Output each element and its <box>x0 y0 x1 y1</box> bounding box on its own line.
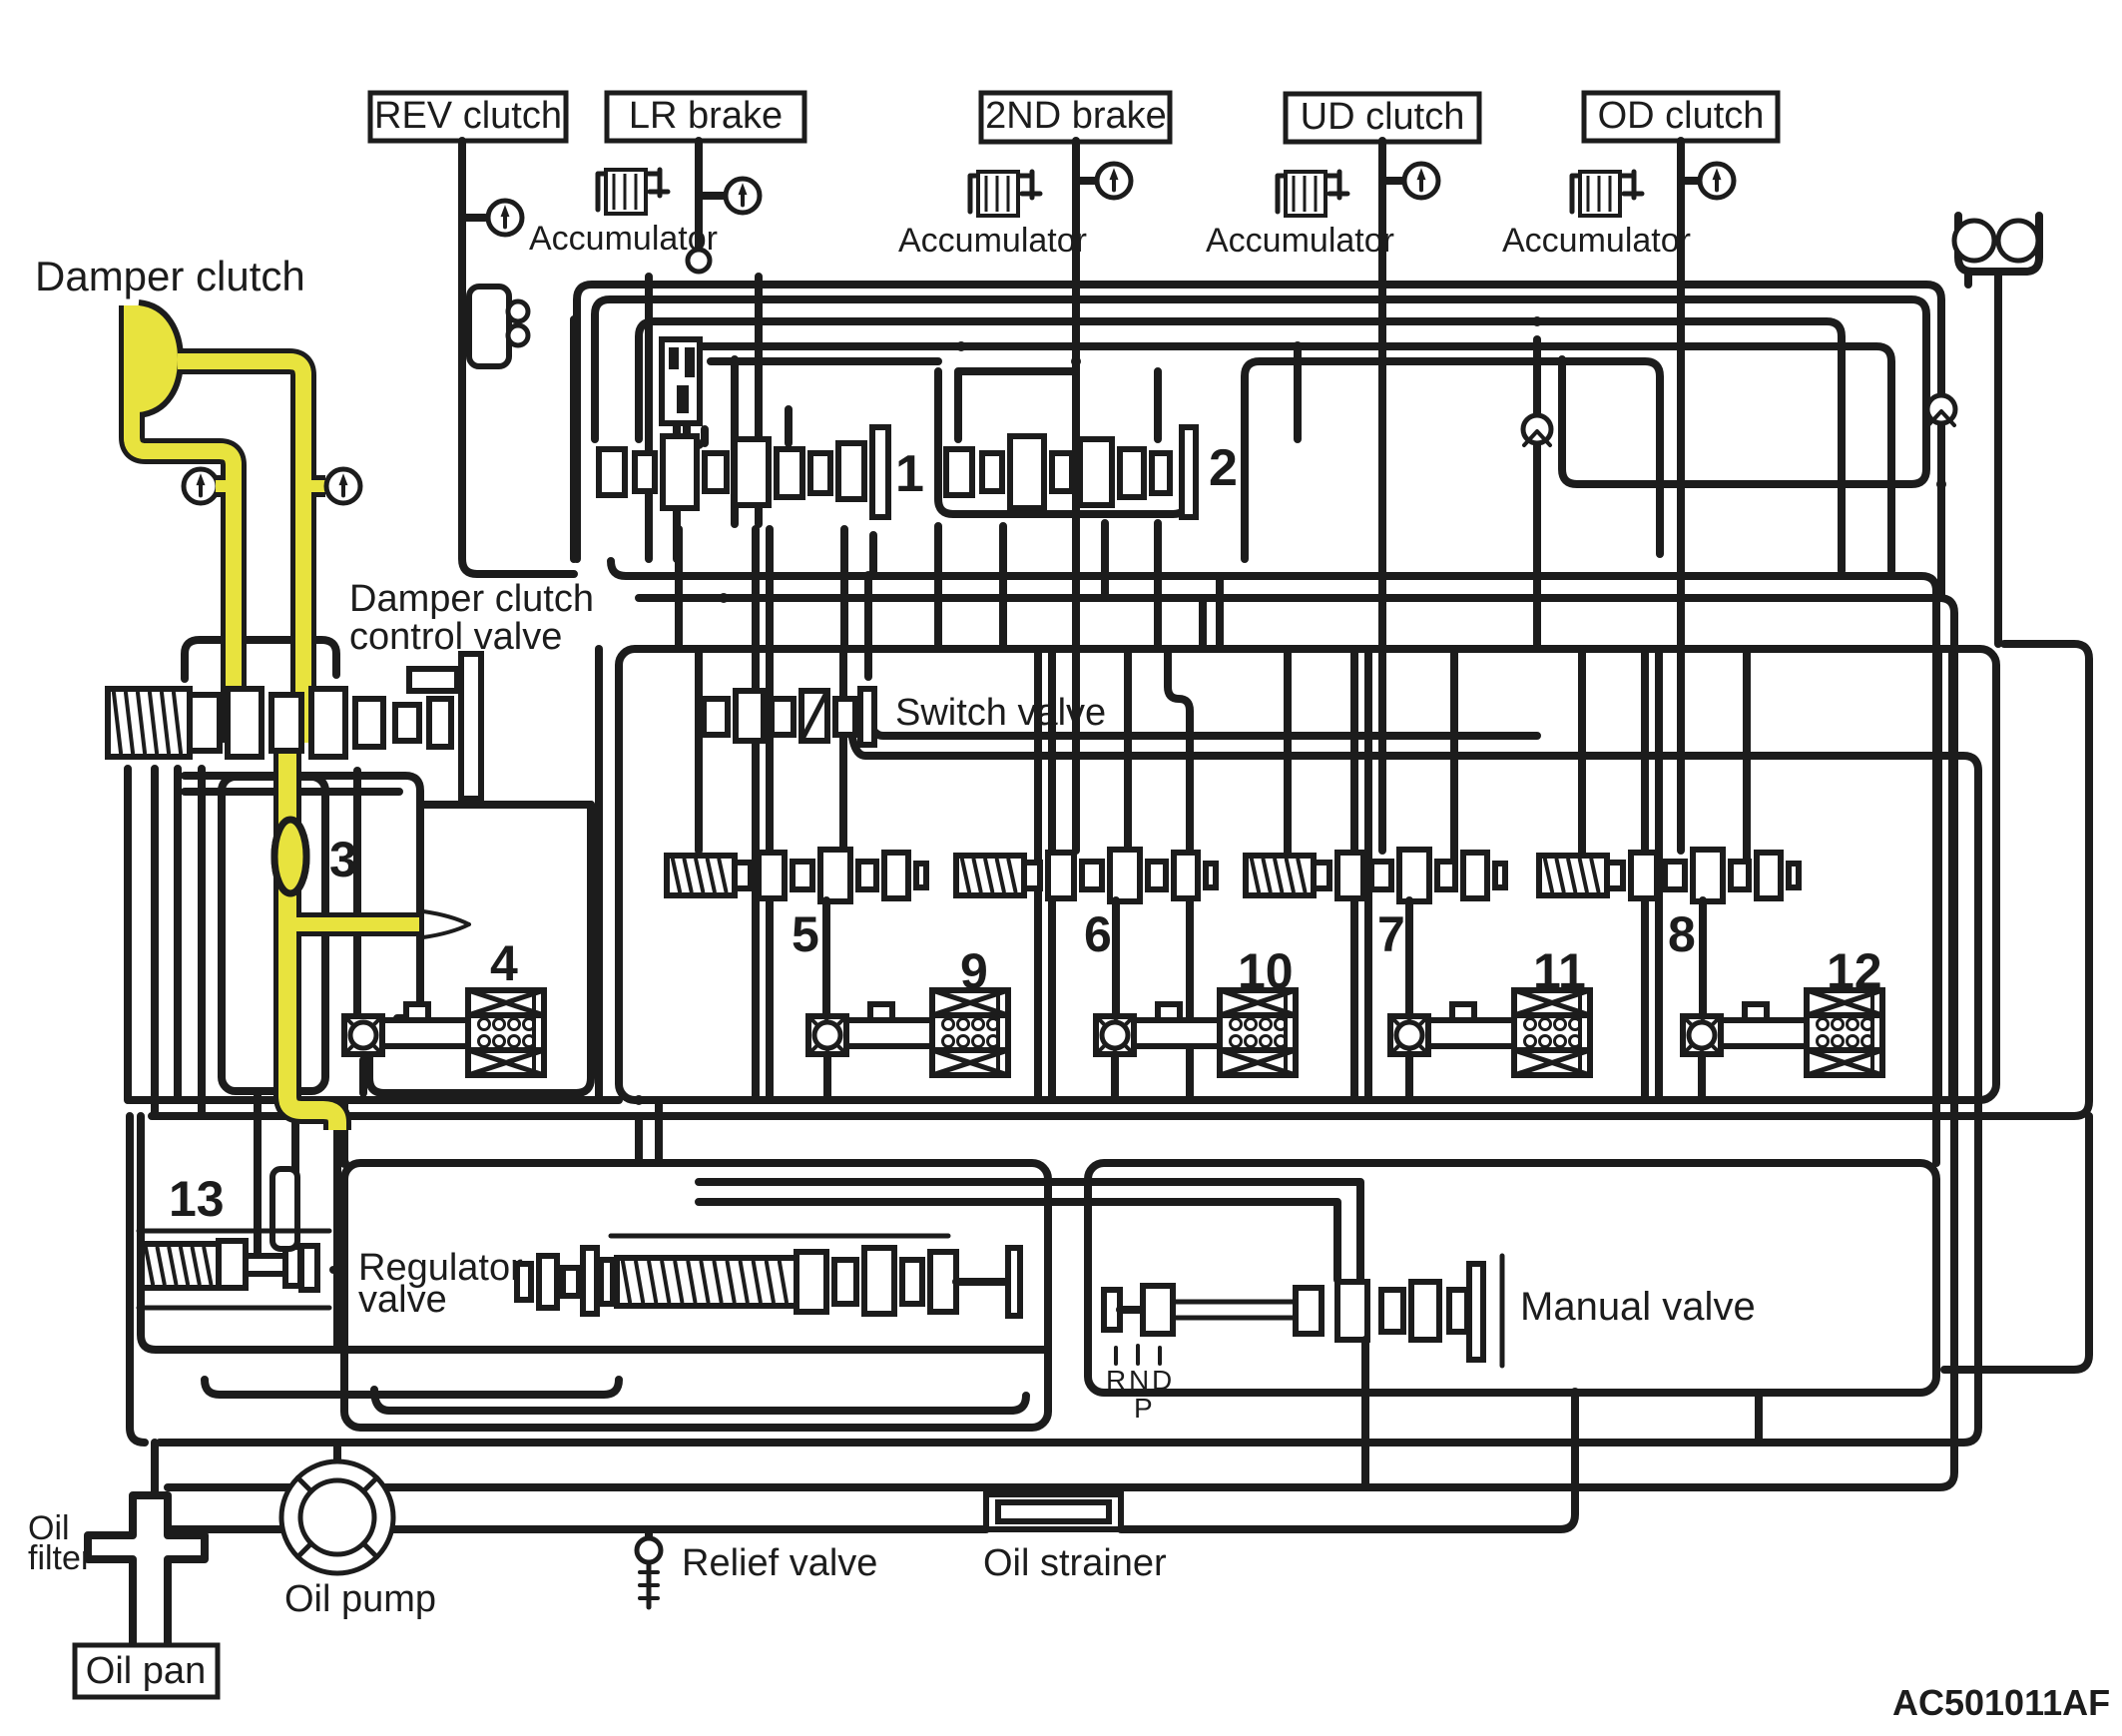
compartment wall pair 4 <box>1645 649 1659 1100</box>
svg-text:13: 13 <box>169 1171 225 1227</box>
wire top bus 1 <box>577 285 1941 598</box>
wire valve1 left verticals <box>574 277 759 559</box>
valve 13 assembly <box>140 1244 220 1288</box>
valve 1 spool assembly <box>599 449 625 495</box>
label box REV clutch <box>370 93 566 141</box>
junction dots <box>863 571 873 581</box>
component with ports near valve 1 <box>662 339 700 423</box>
node 3 oval <box>274 820 306 893</box>
solenoid valve 12 <box>1807 990 1882 1075</box>
wire mid run y737 <box>868 704 1537 736</box>
check ball valve mid left <box>1523 415 1551 443</box>
oil pan box <box>75 1645 218 1697</box>
svg-text:P: P <box>1134 1393 1153 1424</box>
compartment wall pair 1 <box>756 649 770 1100</box>
wire compartment wall pair 1 upper extension <box>756 529 770 649</box>
wire bottom run y1532 mid <box>393 1525 986 1533</box>
svg-text:control valve: control valve <box>349 616 562 658</box>
svg-text:Oil pan: Oil pan <box>86 1650 206 1692</box>
svg-text:LR brake: LR brake <box>629 95 783 137</box>
wire below valve2 verticals <box>1003 523 1220 649</box>
svg-text:1: 1 <box>895 445 924 503</box>
regulator valve assembly <box>517 1264 531 1300</box>
wire long run y577 <box>611 561 1936 1163</box>
wire REV clutch drop <box>462 141 574 574</box>
svg-text:Switch valve: Switch valve <box>895 692 1106 734</box>
compartment wall pair 2 <box>1038 649 1052 1100</box>
wire top bus 4 with right drop <box>687 346 1891 571</box>
label box 2ND brake <box>981 93 1170 142</box>
wire below valve1 verticals <box>679 526 938 649</box>
wire step line center <box>938 371 1188 514</box>
wire left bottom vertical <box>130 1116 145 1443</box>
wire bottom run y1532 right <box>1121 1525 1560 1533</box>
manual valve position ticks <box>1116 1346 1160 1364</box>
svg-text:Accumulator: Accumulator <box>1502 222 1691 260</box>
gauge 2ND <box>1097 164 1131 198</box>
damper clutch control valve housing <box>185 640 336 679</box>
svg-text:4: 4 <box>490 935 518 991</box>
svg-text:Damper clutch: Damper clutch <box>35 253 305 299</box>
svg-text:OD clutch: OD clutch <box>1598 95 1765 137</box>
svg-text:D: D <box>1152 1365 1172 1396</box>
svg-text:R: R <box>1106 1365 1126 1396</box>
wire valve2 riser <box>1158 346 1298 439</box>
manual valve box <box>1088 1163 1936 1393</box>
wire manual valve drop <box>1560 1393 1575 1529</box>
svg-text:9: 9 <box>960 943 988 999</box>
wire regulator bottom runs <box>141 1116 1048 1350</box>
gauge damper right <box>326 469 360 503</box>
wire 2ND brake drop <box>1072 141 1080 851</box>
wire top bus 2 with right drop and bottom return <box>595 299 1926 484</box>
compartment wall pair 5 <box>1938 649 1952 1100</box>
valve 8 spool assembly <box>1539 856 1607 895</box>
damper clutch yellow dome <box>139 302 181 415</box>
yellow circuit black outlines <box>132 305 234 663</box>
accumulator OD <box>1572 172 1634 212</box>
top right twin circle assembly <box>1958 216 2039 272</box>
node 3 oval repaint <box>274 820 306 893</box>
svg-text:valve: valve <box>358 1279 447 1321</box>
regulator valve housing line <box>611 1234 948 1239</box>
wire REV gauge stub <box>462 214 485 222</box>
wire switch valve drop <box>864 576 872 677</box>
wire manual box internal drop <box>1361 1340 1369 1487</box>
wire valve1 risers <box>705 409 789 443</box>
wire OD clutch drop <box>1677 141 1685 851</box>
gauge damper left <box>184 469 218 503</box>
oil strainer <box>986 1494 1121 1529</box>
oil filter <box>88 1495 205 1645</box>
svg-text:10: 10 <box>1238 943 1294 999</box>
valve 7 spool assembly <box>1246 856 1314 895</box>
wire pump riser <box>333 1443 341 1459</box>
valve 4 feed pipe <box>185 776 420 1018</box>
valve 6 spool assembly <box>956 856 1024 895</box>
svg-text:AC501011AF: AC501011AF <box>1892 1682 2110 1723</box>
wire UD loop box <box>1245 361 1660 559</box>
svg-text:8: 8 <box>1668 906 1696 962</box>
solenoid valve 10 <box>1220 990 1296 1075</box>
svg-text:N: N <box>1129 1365 1149 1396</box>
relief valve <box>645 1529 653 1537</box>
svg-text:2: 2 <box>1209 439 1238 497</box>
svg-text:REV clutch: REV clutch <box>374 95 562 137</box>
wire LR brake drop <box>695 141 703 252</box>
wire UD clutch drop <box>1378 141 1386 851</box>
solenoid feed stubs <box>826 900 1703 1016</box>
gauge OD <box>1700 164 1734 198</box>
damper clutch control valve assembly <box>108 689 190 757</box>
wire check line x1540 <box>1533 339 1541 649</box>
wire bottom run y1445 <box>160 1439 1963 1447</box>
ball on LR manifold <box>688 250 710 272</box>
wire UD gauge stub <box>1382 177 1403 185</box>
wire right lower vertical <box>1944 1116 2089 1370</box>
valve 4 ball drop <box>359 1060 367 1093</box>
svg-text:3: 3 <box>329 832 357 887</box>
dome inner tick <box>134 319 139 337</box>
solenoid valve 11 <box>1514 990 1590 1075</box>
wire x345 stub <box>340 1100 348 1163</box>
svg-text:Relief valve: Relief valve <box>682 1542 877 1584</box>
wire bottom run y1532 left <box>168 1525 282 1533</box>
valve 5 spool assembly <box>667 856 735 895</box>
solenoid valve 4 <box>468 990 544 1075</box>
check ball valve mid right <box>1927 395 1955 423</box>
yellow circuit fills <box>132 305 234 663</box>
wire y1185 bundle <box>639 1100 1360 1280</box>
wire yellow-end continuation <box>333 1128 341 1350</box>
wire run y1118 outer shell <box>152 644 2089 1116</box>
manual valve assembly <box>1104 1290 1120 1330</box>
REV line component <box>469 287 509 366</box>
svg-text:Manual valve: Manual valve <box>1520 1285 1756 1329</box>
valve 2 spool assembly <box>946 449 972 495</box>
svg-text:filter: filter <box>28 1539 92 1577</box>
wire manual box bottom riser <box>1755 1393 1763 1443</box>
accumulator UD <box>1278 172 1339 212</box>
svg-text:Damper clutch: Damper clutch <box>349 578 594 620</box>
left lower compartment box <box>222 777 325 1091</box>
regulator valve box <box>344 1163 1048 1428</box>
svg-text:Accumulator: Accumulator <box>1206 222 1394 260</box>
svg-text:2ND brake: 2ND brake <box>985 95 1167 137</box>
wire 2ND gauge stub <box>1076 177 1096 185</box>
svg-text:11: 11 <box>1533 943 1586 999</box>
manual valve bracket <box>1500 1256 1505 1366</box>
wire long run y599 <box>168 598 1954 1487</box>
wire run y1102 left tail <box>130 1096 619 1104</box>
wire OD gauge stub <box>1681 177 1699 185</box>
wire valve13 to regulator <box>333 1266 344 1274</box>
accumulator LR <box>598 170 660 210</box>
label box LR brake <box>607 93 804 141</box>
wire top bus 3 with right drop <box>639 321 1842 571</box>
switch valve spool <box>704 699 728 735</box>
wire LR gauge stub <box>699 192 725 200</box>
valve 4 compartment box <box>369 805 591 1093</box>
compartment feed stubs <box>699 649 1747 859</box>
compartment wall pair 3 <box>1354 649 1368 1100</box>
yellow overlay repaint <box>132 305 234 663</box>
left compartment inner wall <box>595 649 603 1100</box>
label box UD clutch <box>1286 94 1479 142</box>
svg-text:Oil strainer: Oil strainer <box>983 1542 1167 1584</box>
svg-text:7: 7 <box>1377 906 1405 962</box>
svg-text:Oil pump: Oil pump <box>284 1578 436 1620</box>
gauge UD <box>1404 164 1438 198</box>
label box OD clutch <box>1584 93 1778 141</box>
wire valve4 seat feed <box>353 771 361 1014</box>
svg-text:5: 5 <box>792 906 819 962</box>
svg-text:UD clutch: UD clutch <box>1301 96 1465 138</box>
wiggle wall vertical <box>1168 649 1190 1100</box>
wire between-bus stubs <box>958 371 1076 439</box>
svg-text:6: 6 <box>1084 906 1112 962</box>
svg-text:12: 12 <box>1827 943 1882 999</box>
gauge LR <box>726 179 760 213</box>
main valve compartment box <box>619 649 1996 1100</box>
svg-text:Accumulator: Accumulator <box>898 222 1087 260</box>
accumulator 2ND <box>970 172 1032 212</box>
wire filter feed vertical <box>151 1443 159 1495</box>
solenoid valve 9 <box>932 990 1008 1075</box>
yellow branch end marks <box>423 911 469 937</box>
wire mid run y757 <box>850 711 1978 1443</box>
gauge REV <box>488 201 522 235</box>
wire inner loop y362 <box>711 357 938 365</box>
oil pump <box>281 1461 393 1573</box>
